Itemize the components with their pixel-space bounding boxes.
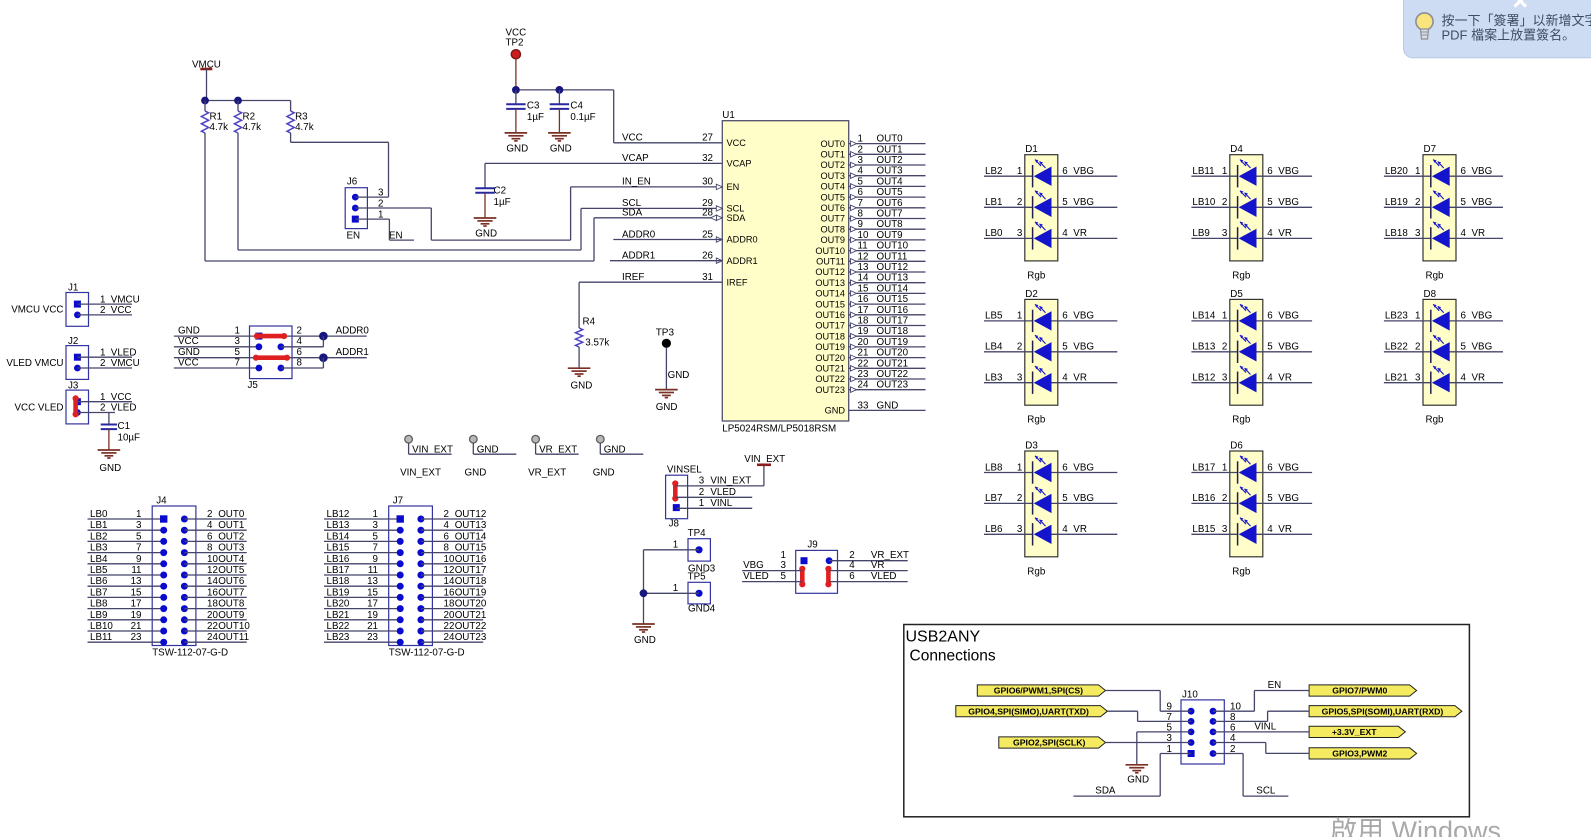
svg-text:EN: EN (347, 231, 361, 242)
svg-text:Rgb: Rgb (1426, 415, 1445, 426)
svg-text:LB1: LB1 (985, 197, 1002, 208)
svg-text:GND: GND (1127, 775, 1149, 786)
svg-text:VLED: VLED (710, 487, 736, 498)
svg-text:OUT14: OUT14 (455, 531, 487, 542)
svg-text:1: 1 (373, 509, 378, 520)
svg-text:VBG: VBG (1073, 311, 1094, 322)
svg-text:4: 4 (1461, 373, 1467, 384)
svg-text:4.7k: 4.7k (295, 122, 314, 133)
svg-text:LB7: LB7 (985, 493, 1002, 504)
svg-text:GND: GND (99, 463, 121, 474)
svg-text:24: 24 (207, 632, 218, 643)
svg-text:OUT16: OUT16 (455, 554, 487, 565)
svg-text:1: 1 (1017, 311, 1022, 322)
svg-text:OUT15: OUT15 (815, 299, 845, 309)
svg-text:ADDR1: ADDR1 (727, 256, 758, 266)
svg-text:J1: J1 (68, 283, 78, 294)
svg-text:GND: GND (178, 326, 200, 337)
svg-text:LB12: LB12 (1192, 373, 1215, 384)
svg-text:VLED: VLED (111, 403, 137, 414)
svg-text:11: 11 (131, 565, 141, 576)
svg-text:4: 4 (1267, 373, 1273, 384)
svg-text:24: 24 (858, 380, 869, 391)
svg-text:GND: GND (465, 467, 487, 478)
svg-text:2: 2 (100, 358, 105, 369)
svg-text:EN: EN (727, 182, 740, 192)
svg-text:D8: D8 (1424, 289, 1437, 300)
svg-text:LB14: LB14 (1192, 311, 1215, 322)
svg-text:SDA: SDA (622, 208, 643, 219)
svg-text:VIN_EXT: VIN_EXT (744, 454, 785, 465)
svg-text:7: 7 (136, 543, 141, 554)
svg-text:OUT3: OUT3 (877, 166, 904, 177)
svg-text:6: 6 (1062, 166, 1068, 177)
svg-text:OUT18: OUT18 (455, 576, 487, 587)
svg-text:2: 2 (699, 487, 704, 498)
svg-text:VBG: VBG (1278, 462, 1299, 473)
svg-text:VBG: VBG (1073, 342, 1094, 353)
svg-text:VLED VMCU: VLED VMCU (6, 358, 63, 369)
svg-text:J5: J5 (248, 380, 259, 391)
svg-text:21: 21 (131, 621, 142, 632)
svg-text:4.7k: 4.7k (210, 122, 229, 133)
svg-text:11: 11 (368, 565, 378, 576)
svg-text:C1: C1 (118, 421, 131, 432)
svg-text:TSW-112-07-G-D: TSW-112-07-G-D (152, 648, 228, 659)
svg-text:LB16: LB16 (327, 554, 350, 565)
svg-text:3: 3 (235, 336, 241, 347)
svg-text:2: 2 (1017, 197, 1022, 208)
svg-text:LB11: LB11 (90, 632, 112, 643)
svg-text:GND: GND (550, 144, 572, 155)
svg-text:OUT8: OUT8 (218, 599, 245, 610)
svg-text:26: 26 (702, 251, 713, 262)
svg-text:LB0: LB0 (985, 228, 1003, 239)
svg-text:OUT16: OUT16 (815, 310, 845, 320)
svg-text:5: 5 (1461, 197, 1467, 208)
svg-text:1: 1 (1222, 462, 1227, 473)
svg-text:17: 17 (367, 599, 378, 610)
svg-text:1: 1 (673, 583, 678, 594)
svg-text:TP3: TP3 (656, 328, 675, 339)
svg-text:LB10: LB10 (90, 621, 113, 632)
svg-text:VR: VR (1073, 228, 1087, 239)
svg-text:VCC: VCC (727, 138, 747, 148)
svg-text:4.7k: 4.7k (243, 122, 262, 133)
svg-text:VBG: VBG (1472, 311, 1493, 322)
svg-text:3: 3 (858, 155, 864, 166)
svg-text:OUT12: OUT12 (815, 267, 845, 277)
svg-text:1µF: 1µF (494, 197, 511, 208)
svg-text:J10: J10 (1182, 690, 1198, 701)
svg-text:8: 8 (207, 543, 213, 554)
svg-text:LB3: LB3 (90, 543, 108, 554)
svg-text:1: 1 (100, 392, 105, 403)
svg-text:OUT19: OUT19 (877, 337, 909, 348)
svg-text:Rgb: Rgb (1426, 270, 1445, 281)
svg-text:18: 18 (207, 599, 218, 610)
svg-text:1: 1 (858, 134, 863, 145)
svg-text:OUT3: OUT3 (218, 543, 245, 554)
svg-text:6: 6 (849, 571, 855, 582)
svg-text:5: 5 (858, 176, 864, 187)
svg-text:3: 3 (1415, 228, 1421, 239)
svg-text:10: 10 (858, 230, 869, 241)
svg-text:5: 5 (373, 531, 379, 542)
svg-text:4: 4 (207, 520, 213, 531)
svg-text:按一下「簽署」以新增文字: 按一下「簽署」以新增文字 (1442, 13, 1591, 28)
svg-text:GND: GND (668, 370, 690, 381)
svg-text:VBG: VBG (1073, 462, 1094, 473)
svg-text:VLED: VLED (111, 347, 137, 358)
svg-text:13: 13 (367, 576, 378, 587)
svg-text:J7: J7 (393, 496, 403, 507)
svg-text:17: 17 (131, 599, 142, 610)
svg-text:GPIO3,PWM2: GPIO3,PWM2 (1332, 749, 1387, 759)
svg-text:OUT5: OUT5 (218, 565, 245, 576)
svg-text:OUT13: OUT13 (455, 520, 487, 531)
svg-text:LB9: LB9 (90, 610, 107, 621)
svg-text:5: 5 (781, 571, 787, 582)
svg-text:OUT11: OUT11 (877, 251, 908, 262)
svg-text:VR: VR (1278, 228, 1292, 239)
svg-text:啟用 Windows: 啟用 Windows (1330, 816, 1501, 837)
svg-text:VMCU VCC: VMCU VCC (11, 305, 63, 316)
svg-text:VCAP: VCAP (727, 159, 752, 169)
svg-text:3: 3 (781, 560, 787, 571)
svg-text:6: 6 (1461, 166, 1467, 177)
svg-text:12: 12 (207, 565, 218, 576)
svg-text:2: 2 (1222, 197, 1227, 208)
svg-text:OUT11: OUT11 (218, 632, 249, 643)
svg-text:LB7: LB7 (90, 587, 107, 598)
svg-text:14: 14 (858, 273, 869, 284)
svg-text:OUT22: OUT22 (877, 369, 909, 380)
svg-text:OUT3: OUT3 (820, 171, 845, 181)
svg-text:OUT18: OUT18 (815, 331, 845, 341)
svg-text:+3.3V_EXT: +3.3V_EXT (1332, 727, 1377, 737)
svg-text:LB21: LB21 (327, 610, 350, 621)
svg-text:7: 7 (373, 543, 378, 554)
svg-text:J6: J6 (347, 177, 358, 188)
svg-text:20: 20 (444, 610, 455, 621)
svg-text:20: 20 (207, 610, 218, 621)
svg-text:EN: EN (389, 231, 403, 242)
svg-text:1: 1 (673, 539, 678, 550)
svg-text:3: 3 (1017, 228, 1023, 239)
svg-text:OUT1: OUT1 (218, 520, 244, 531)
svg-text:27: 27 (702, 133, 713, 144)
svg-text:GND: GND (571, 381, 593, 392)
svg-text:R4: R4 (583, 317, 596, 328)
svg-text:2: 2 (858, 144, 863, 155)
svg-text:15: 15 (367, 587, 378, 598)
svg-text:2: 2 (100, 305, 105, 316)
svg-text:4: 4 (297, 336, 303, 347)
svg-text:VCC: VCC (622, 133, 643, 144)
svg-text:OUT10: OUT10 (815, 246, 845, 256)
svg-text:3: 3 (1415, 373, 1421, 384)
svg-text:J8: J8 (669, 519, 680, 530)
svg-text:VBG: VBG (1278, 493, 1299, 504)
svg-text:OUT23: OUT23 (455, 632, 487, 643)
svg-text:LB20: LB20 (1385, 166, 1408, 177)
svg-text:6: 6 (1267, 311, 1273, 322)
svg-text:18: 18 (444, 599, 455, 610)
svg-text:LP5024RSM/LP5018RSM: LP5024RSM/LP5018RSM (722, 424, 836, 435)
svg-text:LB17: LB17 (327, 565, 350, 576)
svg-text:3: 3 (1222, 228, 1228, 239)
svg-text:VBG: VBG (1073, 493, 1094, 504)
svg-text:22: 22 (207, 621, 218, 632)
svg-text:OUT21: OUT21 (877, 358, 909, 369)
svg-text:16: 16 (858, 294, 869, 305)
svg-text:OUT22: OUT22 (815, 374, 845, 384)
svg-text:OUT19: OUT19 (815, 342, 845, 352)
svg-text:OUT10: OUT10 (877, 241, 909, 252)
svg-text:2: 2 (100, 403, 105, 414)
svg-text:1: 1 (1222, 166, 1227, 177)
svg-text:5: 5 (1267, 493, 1273, 504)
svg-text:VMCU: VMCU (111, 294, 140, 305)
svg-text:LB22: LB22 (327, 621, 350, 632)
svg-text:OUT2: OUT2 (877, 155, 903, 166)
svg-text:5: 5 (136, 531, 142, 542)
svg-text:12: 12 (858, 251, 869, 262)
svg-text:GND: GND (475, 229, 497, 240)
svg-text:14: 14 (444, 576, 455, 587)
svg-text:OUT23: OUT23 (815, 385, 845, 395)
svg-text:OUT22: OUT22 (455, 621, 487, 632)
svg-text:6: 6 (1461, 311, 1467, 322)
svg-text:2: 2 (1017, 493, 1022, 504)
svg-text:VBG: VBG (1472, 197, 1493, 208)
svg-text:4: 4 (1062, 373, 1068, 384)
svg-text:VR: VR (871, 560, 885, 571)
svg-text:VBG: VBG (1278, 311, 1299, 322)
svg-text:1: 1 (699, 498, 704, 509)
svg-text:OUT15: OUT15 (877, 294, 909, 305)
svg-text:22: 22 (444, 621, 455, 632)
svg-text:VIN_EXT: VIN_EXT (710, 475, 751, 486)
svg-text:4: 4 (1062, 524, 1068, 535)
svg-text:OUT5: OUT5 (820, 192, 845, 202)
svg-text:GPIO4,SPI(SIMO),UART(TXD): GPIO4,SPI(SIMO),UART(TXD) (968, 706, 1089, 716)
svg-text:SDA: SDA (727, 213, 747, 223)
svg-text:OUT9: OUT9 (820, 235, 845, 245)
svg-text:PDF 檔案上放置簽名。: PDF 檔案上放置簽名。 (1442, 28, 1576, 43)
svg-text:OUT7: OUT7 (877, 209, 903, 220)
svg-text:14: 14 (207, 576, 218, 587)
svg-text:VCC: VCC (178, 336, 199, 347)
svg-text:ADDR0: ADDR0 (336, 325, 370, 336)
svg-text:23: 23 (367, 632, 378, 643)
svg-text:OUT1: OUT1 (820, 150, 845, 160)
svg-text:VR: VR (1073, 373, 1087, 384)
svg-text:OUT20: OUT20 (815, 353, 845, 363)
svg-text:C2: C2 (494, 186, 507, 197)
svg-text:17: 17 (858, 305, 869, 316)
svg-text:21: 21 (858, 348, 869, 359)
svg-text:3: 3 (1222, 524, 1228, 535)
svg-text:OUT16: OUT16 (877, 305, 909, 316)
svg-text:4: 4 (1267, 524, 1273, 535)
svg-text:VIN_EXT: VIN_EXT (400, 467, 441, 478)
svg-text:10: 10 (444, 554, 455, 565)
svg-text:ADDR0: ADDR0 (727, 235, 758, 245)
svg-text:ADDR1: ADDR1 (622, 251, 655, 262)
svg-text:C4: C4 (570, 101, 583, 112)
svg-text:GPIO7/PWM0: GPIO7/PWM0 (1332, 686, 1387, 696)
svg-text:ADDR0: ADDR0 (622, 229, 656, 240)
svg-text:OUT0: OUT0 (820, 139, 845, 149)
svg-text:6: 6 (207, 531, 213, 542)
svg-text:D1: D1 (1025, 144, 1038, 155)
svg-text:OUT2: OUT2 (218, 531, 244, 542)
svg-text:OUT12: OUT12 (877, 262, 909, 273)
svg-text:1: 1 (1017, 462, 1022, 473)
svg-text:10: 10 (207, 554, 218, 565)
svg-text:SDA: SDA (1095, 786, 1116, 797)
svg-text:OUT4: OUT4 (820, 182, 845, 192)
svg-text:IN_EN: IN_EN (622, 177, 651, 188)
svg-text:3: 3 (1017, 373, 1023, 384)
svg-text:LB5: LB5 (90, 565, 108, 576)
svg-text:6: 6 (858, 187, 864, 198)
svg-text:OUT11: OUT11 (816, 257, 845, 267)
svg-text:LB14: LB14 (327, 531, 350, 542)
svg-text:LB21: LB21 (1385, 373, 1408, 384)
svg-text:LB19: LB19 (327, 587, 350, 598)
svg-text:LB23: LB23 (1385, 311, 1408, 322)
svg-text:OUT12: OUT12 (455, 509, 487, 520)
svg-text:VR: VR (1073, 524, 1087, 535)
svg-text:OUT6: OUT6 (877, 198, 904, 209)
svg-text:D2: D2 (1025, 289, 1038, 300)
svg-text:1µF: 1µF (527, 112, 544, 123)
svg-text:4: 4 (1461, 228, 1467, 239)
svg-text:5: 5 (1461, 342, 1467, 353)
svg-text:12: 12 (444, 565, 455, 576)
svg-text:U1: U1 (722, 110, 735, 121)
svg-text:J4: J4 (156, 496, 167, 507)
svg-text:OUT4: OUT4 (877, 176, 904, 187)
svg-text:4: 4 (849, 560, 855, 571)
svg-text:OUT9: OUT9 (877, 230, 903, 241)
svg-text:33: 33 (858, 400, 869, 411)
svg-text:OUT19: OUT19 (455, 587, 487, 598)
svg-text:2: 2 (1222, 342, 1227, 353)
svg-text:VBG: VBG (1472, 166, 1493, 177)
svg-text:4: 4 (444, 520, 450, 531)
svg-text:1: 1 (1415, 311, 1420, 322)
svg-text:LB2: LB2 (90, 531, 107, 542)
svg-text:VBG: VBG (1472, 342, 1493, 353)
svg-text:J9: J9 (807, 540, 817, 551)
svg-text:5: 5 (1267, 197, 1273, 208)
svg-text:LB6: LB6 (90, 576, 108, 587)
svg-text:2: 2 (1222, 493, 1227, 504)
svg-text:ADDR1: ADDR1 (336, 347, 369, 358)
svg-text:OUT6: OUT6 (218, 576, 245, 587)
svg-text:6: 6 (1267, 462, 1273, 473)
svg-text:11: 11 (858, 241, 868, 252)
svg-text:OUT0: OUT0 (218, 509, 245, 520)
svg-text:1: 1 (1222, 311, 1227, 322)
svg-text:VR: VR (1278, 524, 1292, 535)
svg-text:6: 6 (1062, 462, 1068, 473)
svg-text:LB8: LB8 (90, 599, 108, 610)
svg-text:GND: GND (656, 402, 678, 413)
svg-text:8: 8 (858, 209, 864, 220)
svg-text:22: 22 (858, 358, 869, 369)
svg-text:VLED: VLED (743, 571, 769, 582)
svg-text:J3: J3 (68, 380, 79, 391)
svg-text:LB12: LB12 (327, 509, 350, 520)
svg-text:2: 2 (1017, 342, 1022, 353)
svg-text:7: 7 (235, 357, 240, 368)
svg-text:LB6: LB6 (985, 524, 1003, 535)
svg-text:2: 2 (1415, 342, 1420, 353)
svg-text:LB20: LB20 (327, 599, 350, 610)
svg-text:5: 5 (1267, 342, 1273, 353)
svg-text:LB13: LB13 (1192, 342, 1215, 353)
svg-text:VBG: VBG (1278, 197, 1299, 208)
svg-text:OUT21: OUT21 (455, 610, 487, 621)
svg-text:6: 6 (444, 531, 450, 542)
svg-text:EN: EN (1268, 680, 1282, 691)
svg-text:LB18: LB18 (1385, 228, 1408, 239)
svg-text:3: 3 (1222, 373, 1228, 384)
svg-text:D4: D4 (1230, 144, 1243, 155)
svg-text:2: 2 (207, 509, 212, 520)
svg-text:LB3: LB3 (985, 373, 1003, 384)
svg-text:9: 9 (858, 219, 863, 230)
svg-text:LB18: LB18 (327, 576, 350, 587)
svg-text:VINSEL: VINSEL (667, 465, 702, 476)
svg-text:SCL: SCL (1256, 786, 1276, 797)
svg-text:LB23: LB23 (327, 632, 350, 643)
svg-text:OUT13: OUT13 (877, 273, 909, 284)
svg-text:2: 2 (1415, 197, 1420, 208)
svg-text:LB22: LB22 (1385, 342, 1408, 353)
svg-text:LB13: LB13 (327, 520, 350, 531)
svg-text:OUT9: OUT9 (218, 610, 244, 621)
svg-text:OUT14: OUT14 (877, 283, 909, 294)
svg-text:OUT13: OUT13 (815, 278, 845, 288)
svg-text:3: 3 (378, 188, 384, 199)
svg-text:3: 3 (136, 520, 142, 531)
svg-text:VBG: VBG (1073, 197, 1094, 208)
svg-text:TP5: TP5 (688, 572, 707, 583)
svg-text:Rgb: Rgb (1232, 415, 1251, 426)
svg-text:OUT5: OUT5 (877, 187, 904, 198)
svg-text:OUT7: OUT7 (218, 587, 244, 598)
svg-text:Rgb: Rgb (1027, 270, 1046, 281)
svg-text:OUT21: OUT21 (815, 364, 845, 374)
svg-text:24: 24 (444, 632, 455, 643)
svg-text:TP4: TP4 (688, 528, 707, 539)
svg-text:OUT0: OUT0 (877, 134, 904, 145)
svg-text:8: 8 (297, 357, 303, 368)
svg-text:5: 5 (1062, 493, 1068, 504)
svg-text:OUT8: OUT8 (820, 224, 845, 234)
svg-text:LB9: LB9 (1192, 228, 1209, 239)
svg-text:LB17: LB17 (1192, 462, 1215, 473)
svg-text:9: 9 (136, 554, 141, 565)
svg-text:7: 7 (858, 198, 863, 209)
svg-text:J2: J2 (68, 336, 78, 347)
